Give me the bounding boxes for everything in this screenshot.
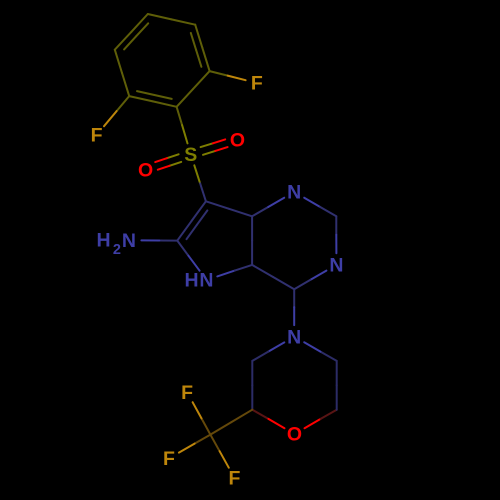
bond C6-NH2 [159,240,177,242]
bond C5-C6 (aromatic) [195,25,202,48]
svg-text:2: 2 [113,242,121,258]
bond C2-N3 [335,216,337,235]
bond C3-C4 (aromatic) [115,32,132,50]
bond C1-S [177,107,183,125]
svg-text:S: S [184,144,197,166]
svg-text:F: F [91,125,103,147]
bond C4a-C7a (fused, double) [251,241,253,265]
bond N5-C4a [217,271,234,277]
bond C7a-C7 [229,209,252,217]
svg-text:N: N [287,326,301,348]
svg-text:F: F [181,382,193,404]
svg-text:N: N [287,182,301,204]
svg-text:F: F [228,468,240,490]
bond C5m-N4m [320,352,336,361]
bond C6-F [210,71,228,76]
bond C7-C6 (double) [192,201,206,221]
bond C1-C2 (aromatic) [153,101,177,106]
svg-text:N: N [199,270,213,292]
svg-text:H: H [184,270,198,292]
bond C-F left [195,435,211,444]
bond C6m-C5m [336,385,338,409]
bond C4-C5 [148,14,172,19]
svg-text:H: H [97,230,111,252]
svg-text:O: O [138,159,153,181]
bond C6-N5 [177,241,188,256]
bond S-C7 [194,165,200,183]
svg-text:O: O [230,130,245,152]
bond O-C6m [305,419,321,428]
bond C3m-C2m [251,361,253,385]
bond C7a-N1 [252,207,268,216]
svg-text:N: N [329,255,343,277]
bond S=O (right, double) [203,151,215,155]
bond C-F top [202,418,211,434]
bond C4-N4m [293,289,295,307]
bond S=O (left, double) [167,154,179,158]
bond C-F bottom [210,435,219,452]
svg-text:F: F [251,73,263,95]
bond C2-F [117,96,130,111]
bond C2m-CF3 [231,410,252,422]
svg-text:N: N [122,230,136,252]
bond N3-C4 (double) [310,271,326,280]
svg-text:O: O [287,424,302,446]
bond C6-C1 [193,71,210,89]
svg-text:F: F [163,448,175,470]
bond C2-C3 [122,73,129,96]
bond C2m-O [252,410,268,419]
bond C4-C4a [273,277,294,289]
bond N4m-C3m [268,342,284,351]
bond N1-C2 (double) [304,198,320,207]
